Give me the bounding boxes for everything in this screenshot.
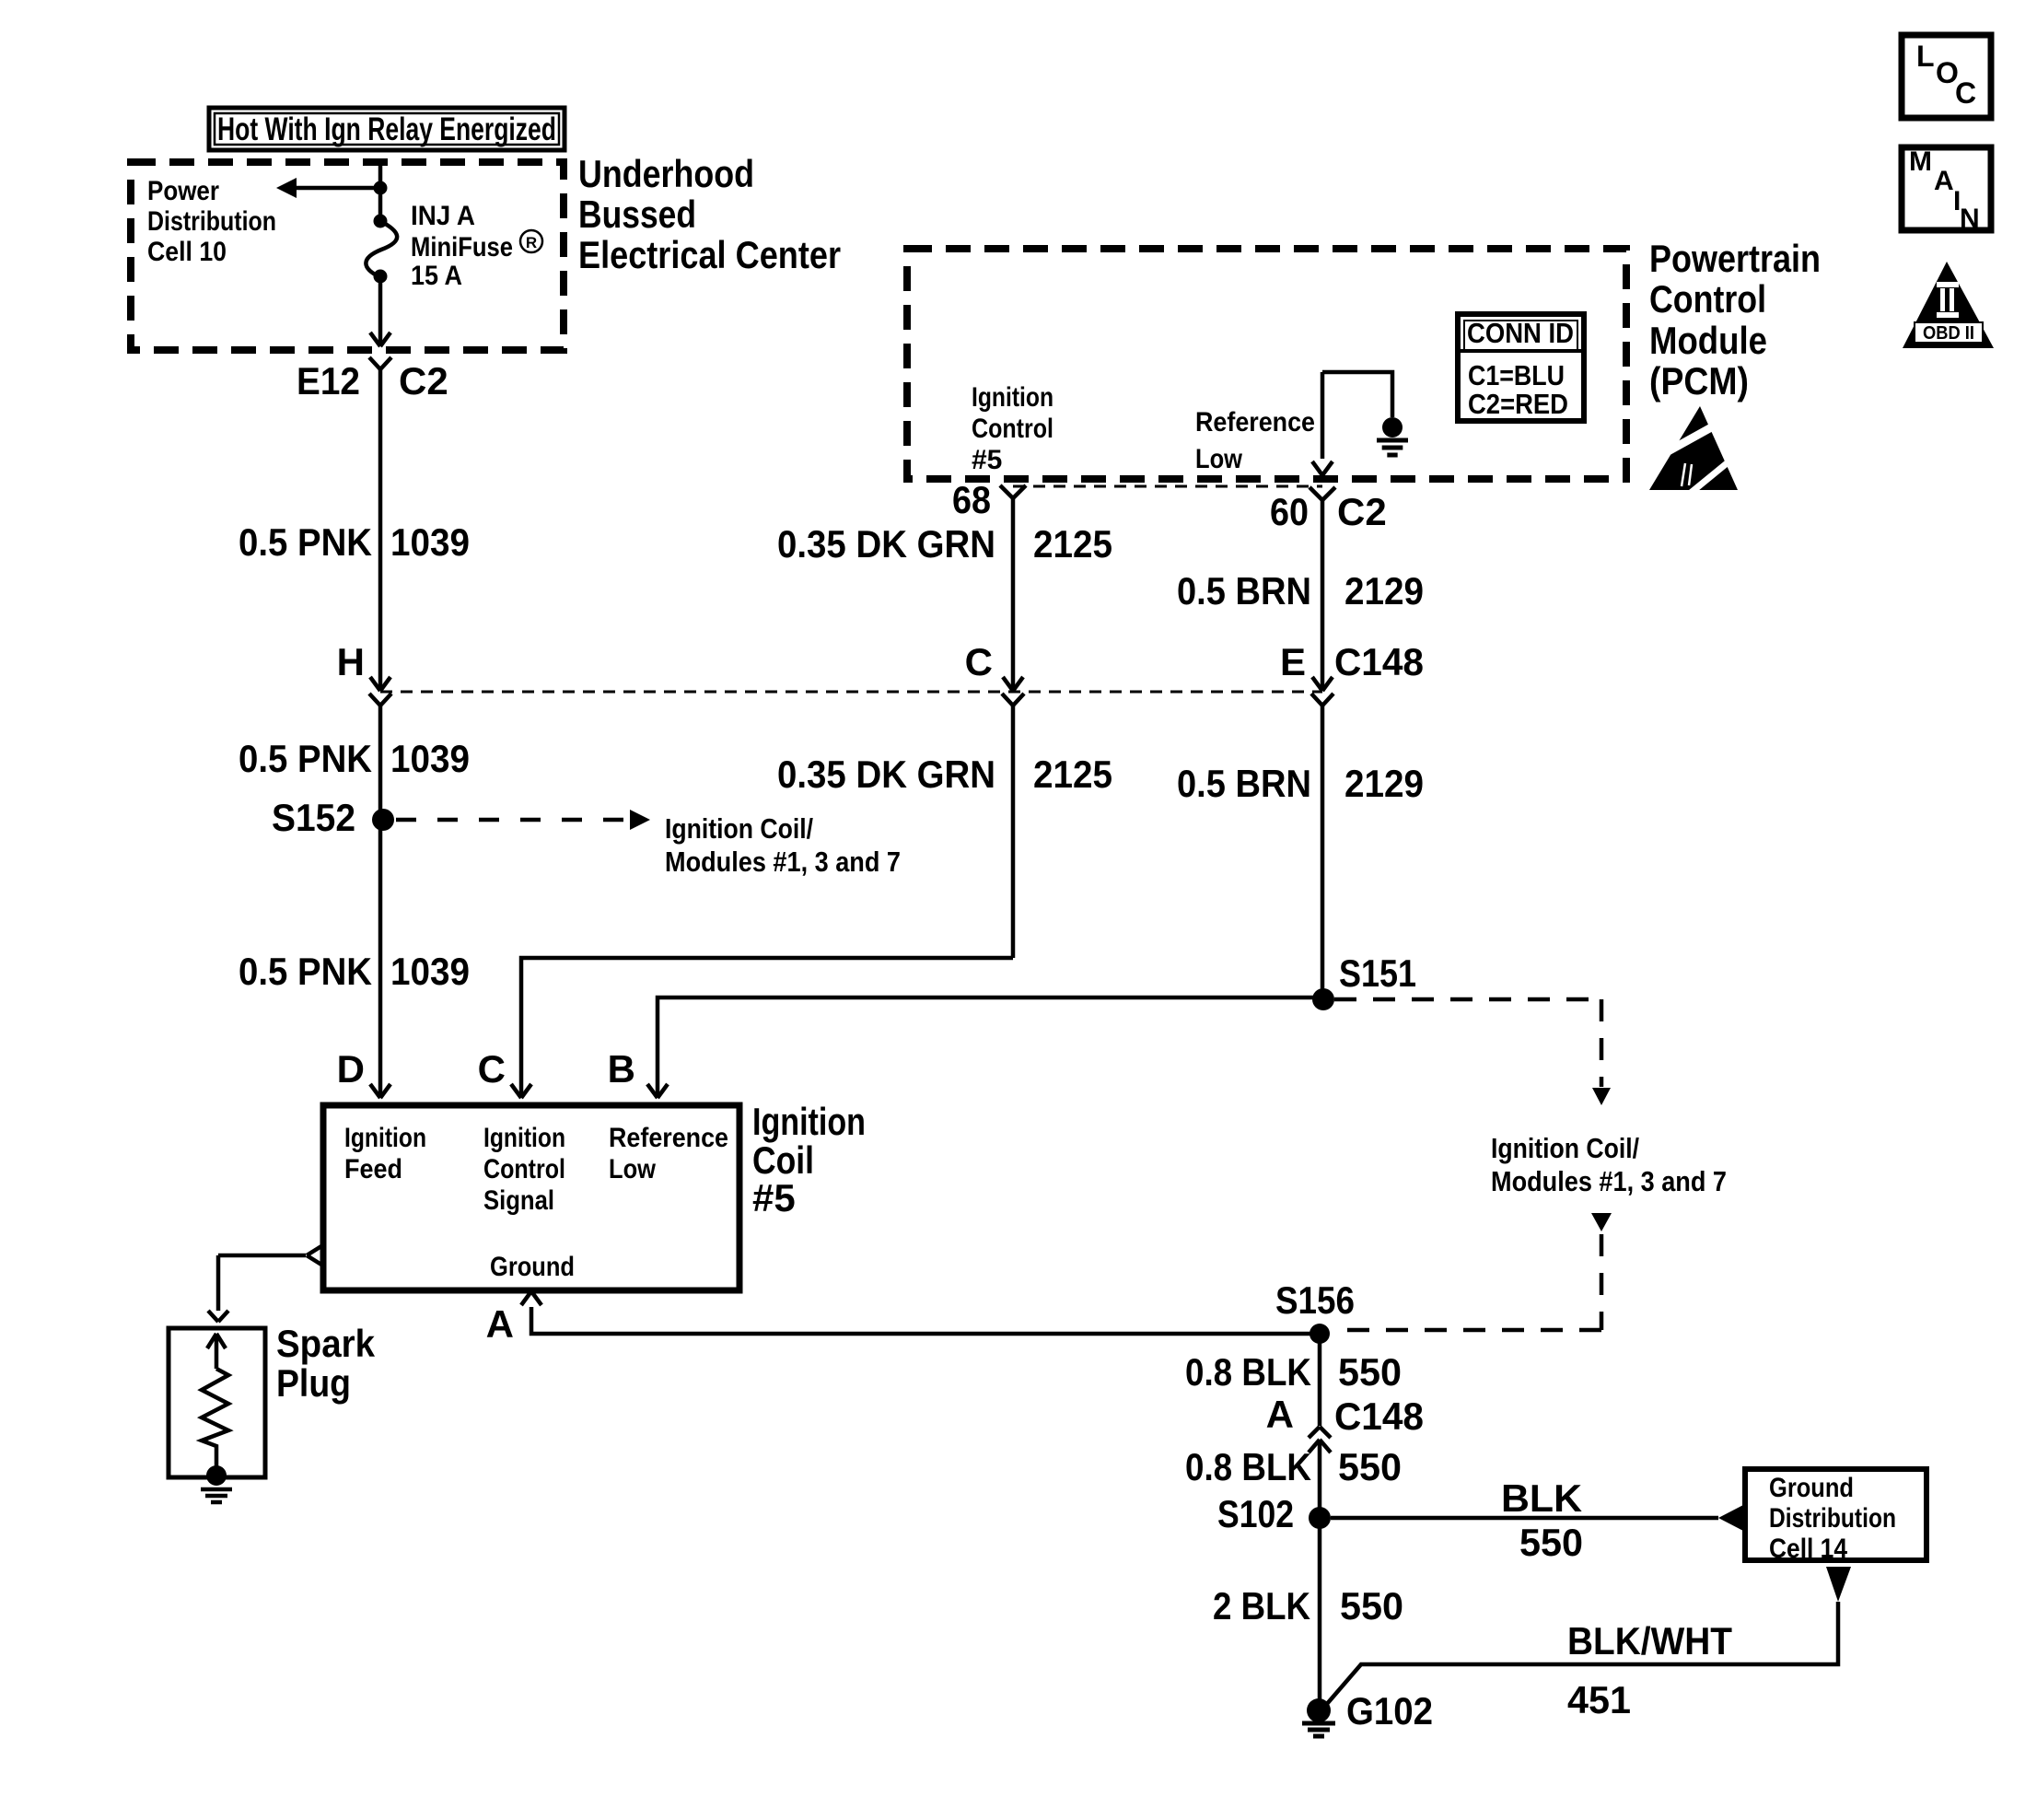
svg-text:Spark: Spark (276, 1322, 376, 1365)
svg-text:Ignition Coil/: Ignition Coil/ (1491, 1132, 1639, 1164)
svg-text:1039: 1039 (390, 737, 470, 780)
svg-text:C: C (1955, 76, 1976, 110)
svg-text:C2=RED: C2=RED (1468, 388, 1568, 420)
svg-text:0.5 BRN: 0.5 BRN (1177, 762, 1311, 805)
svg-text:H: H (337, 640, 365, 683)
svg-text:#5: #5 (752, 1176, 796, 1219)
svg-text:Control: Control (1649, 277, 1766, 321)
svg-text:Power: Power (147, 176, 219, 206)
svg-text:0.35 DK GRN: 0.35 DK GRN (777, 522, 995, 566)
svg-text:Reference: Reference (1195, 407, 1315, 437)
svg-text:0.5 PNK: 0.5 PNK (239, 737, 372, 780)
svg-text:2125: 2125 (1033, 752, 1112, 796)
svg-text:C148: C148 (1334, 640, 1424, 683)
svg-text:R: R (526, 234, 537, 251)
svg-text:550: 550 (1340, 1584, 1403, 1627)
svg-text:2129: 2129 (1344, 569, 1424, 612)
svg-text:Hot With Ign Relay Energized: Hot With Ign Relay Energized (217, 111, 556, 147)
svg-text:C1=BLU: C1=BLU (1468, 359, 1565, 391)
svg-text:C: C (478, 1047, 506, 1091)
svg-text:0.8 BLK: 0.8 BLK (1185, 1350, 1311, 1394)
svg-text:1039: 1039 (390, 950, 470, 993)
svg-text:Ground: Ground (490, 1252, 575, 1282)
svg-text:E: E (1280, 640, 1306, 683)
svg-text:L: L (1916, 40, 1935, 73)
svg-text:N: N (1960, 204, 1980, 234)
svg-text:Bussed: Bussed (578, 192, 696, 236)
svg-text:Coil: Coil (752, 1138, 814, 1182)
svg-text:(PCM): (PCM) (1649, 359, 1749, 402)
svg-text:1039: 1039 (390, 520, 470, 564)
svg-text:0.8 BLK: 0.8 BLK (1185, 1445, 1311, 1488)
svg-text:0.35 DK GRN: 0.35 DK GRN (777, 752, 995, 796)
svg-text:Module: Module (1649, 319, 1767, 362)
svg-text:Distribution: Distribution (147, 206, 276, 237)
svg-text:0.5 BRN: 0.5 BRN (1177, 569, 1311, 612)
svg-text:S152: S152 (272, 796, 355, 839)
svg-text:C: C (965, 640, 993, 683)
svg-text:Low: Low (609, 1154, 657, 1184)
svg-text:Feed: Feed (344, 1154, 402, 1184)
svg-text:C148: C148 (1334, 1394, 1424, 1438)
svg-text:Ignition: Ignition (344, 1123, 426, 1153)
svg-text:Modules #1, 3 and 7: Modules #1, 3 and 7 (1491, 1165, 1727, 1197)
svg-text:Control: Control (483, 1154, 565, 1184)
svg-text:BLK/WHT: BLK/WHT (1567, 1619, 1732, 1662)
svg-text:Ignition: Ignition (752, 1100, 866, 1143)
svg-text:Reference: Reference (609, 1123, 728, 1153)
svg-text:451: 451 (1567, 1678, 1631, 1721)
svg-text:A: A (486, 1302, 514, 1346)
svg-text:A: A (1266, 1393, 1294, 1436)
svg-text:Ignition: Ignition (483, 1123, 565, 1153)
svg-text:S151: S151 (1339, 951, 1416, 995)
svg-text:0.5 PNK: 0.5 PNK (239, 520, 372, 564)
svg-text:Underhood: Underhood (578, 152, 754, 195)
svg-text:2129: 2129 (1344, 762, 1424, 805)
svg-text:2 BLK: 2 BLK (1213, 1584, 1310, 1627)
svg-text:M: M (1909, 146, 1932, 177)
svg-text:C2: C2 (399, 359, 448, 402)
svg-text:60: 60 (1270, 490, 1309, 533)
svg-text:G102: G102 (1346, 1689, 1433, 1732)
svg-text:Signal: Signal (483, 1185, 554, 1216)
svg-text:550: 550 (1338, 1445, 1402, 1488)
svg-text:Ignition Coil/: Ignition Coil/ (665, 812, 813, 845)
svg-text:0.5 PNK: 0.5 PNK (239, 950, 372, 993)
svg-text:Ignition: Ignition (972, 382, 1053, 413)
svg-text:Cell 10: Cell 10 (147, 237, 227, 267)
svg-text:550: 550 (1338, 1350, 1402, 1394)
svg-text:E12: E12 (297, 359, 360, 402)
svg-text:CONN ID: CONN ID (1467, 317, 1574, 349)
svg-text:B: B (608, 1047, 635, 1091)
svg-text:#5: #5 (972, 445, 1002, 475)
svg-text:Plug: Plug (276, 1361, 351, 1405)
svg-text:MiniFuse: MiniFuse (411, 232, 513, 262)
svg-text:550: 550 (1519, 1521, 1583, 1564)
svg-text:C2: C2 (1337, 490, 1387, 533)
svg-text:68: 68 (952, 478, 991, 521)
svg-text:INJ A: INJ A (411, 201, 475, 231)
svg-text:Modules #1, 3 and 7: Modules #1, 3 and 7 (665, 846, 901, 878)
svg-text:D: D (337, 1047, 365, 1091)
svg-text:Distribution: Distribution (1769, 1503, 1896, 1534)
svg-text:Powertrain: Powertrain (1649, 237, 1821, 280)
svg-text:S156: S156 (1275, 1278, 1355, 1322)
svg-text:Control: Control (972, 414, 1053, 444)
svg-text:15 A: 15 A (411, 261, 462, 291)
svg-text:Cell 14: Cell 14 (1769, 1534, 1847, 1564)
svg-text:BLK: BLK (1501, 1476, 1582, 1520)
svg-text:Ground: Ground (1769, 1473, 1854, 1503)
svg-text:A: A (1934, 166, 1954, 196)
svg-text:2125: 2125 (1033, 522, 1112, 566)
svg-text:OBD II: OBD II (1923, 323, 1974, 344)
svg-text:Low: Low (1195, 444, 1243, 474)
svg-text:S102: S102 (1217, 1492, 1294, 1535)
svg-text:Electrical Center: Electrical Center (578, 233, 841, 276)
